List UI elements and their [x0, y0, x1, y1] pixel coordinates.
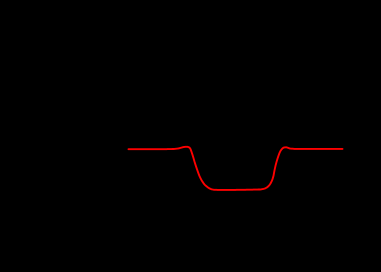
red transmission curve trace — [129, 147, 343, 190]
